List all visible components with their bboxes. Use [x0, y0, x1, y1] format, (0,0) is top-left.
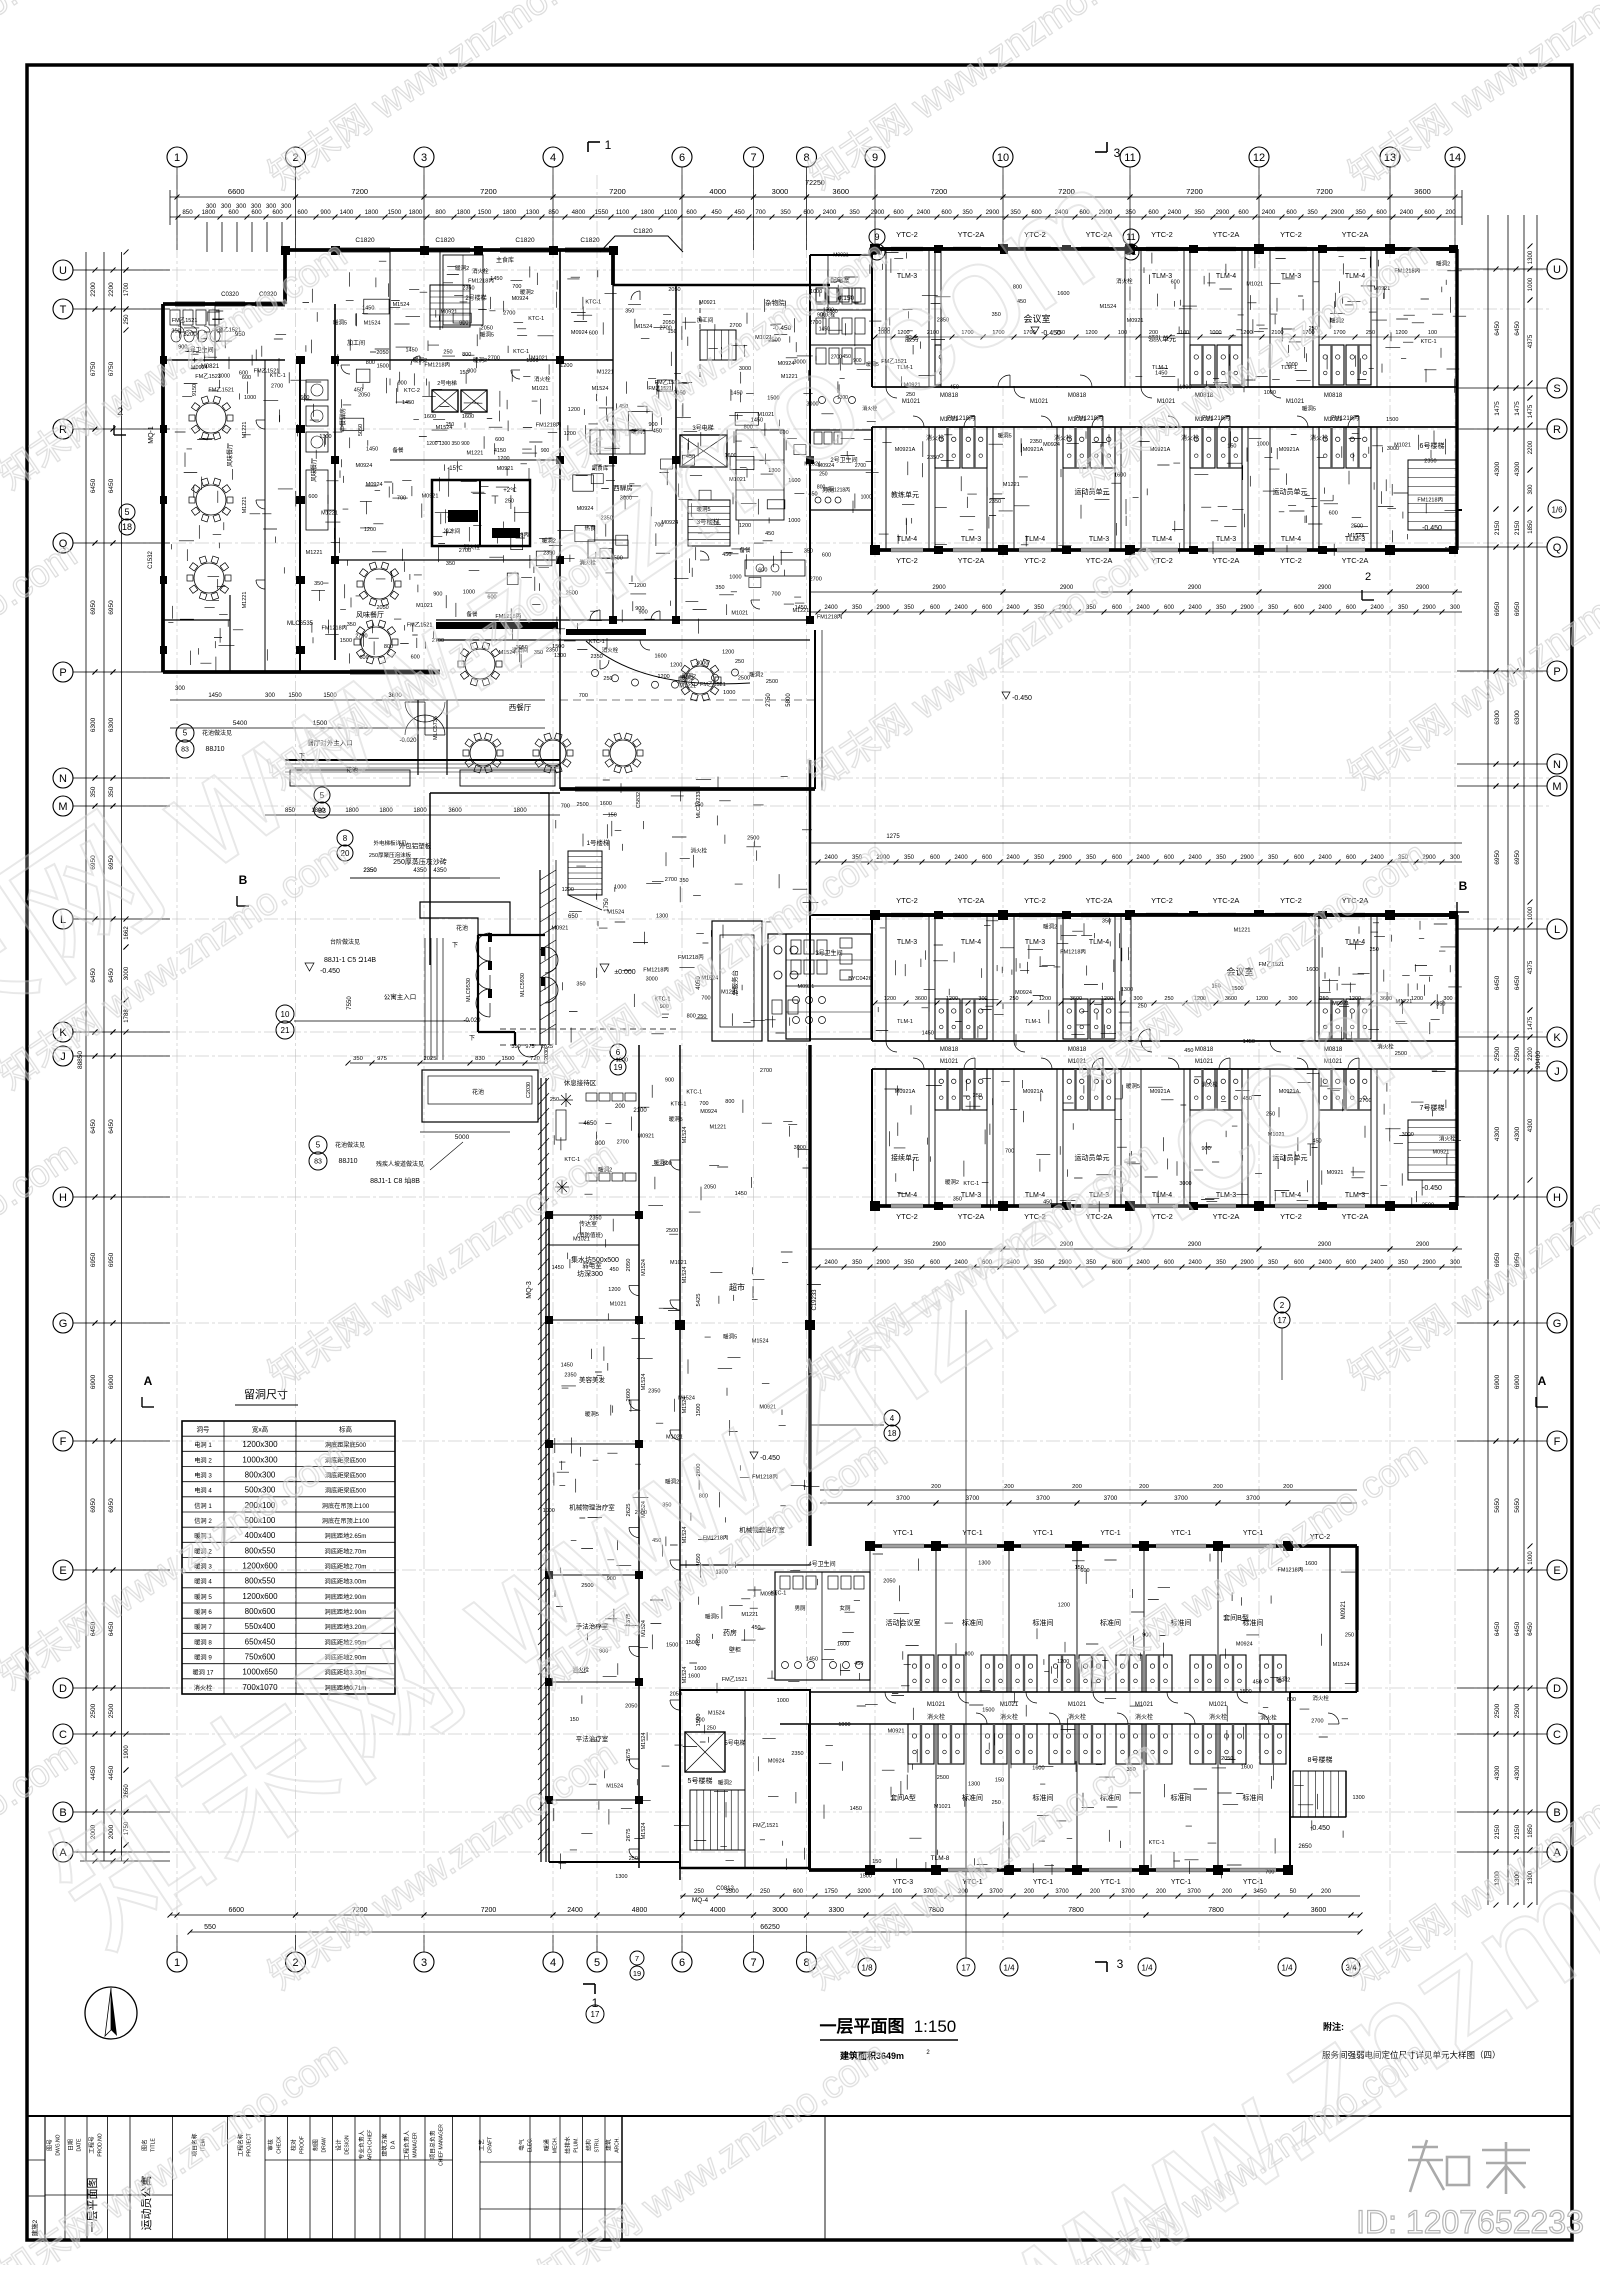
dining service corridor walls + columns [299, 360, 301, 672]
svg-text:4: 4 [550, 152, 556, 164]
svg-text:2400: 2400 [1318, 855, 1332, 861]
svg-text:1200: 1200 [1101, 996, 1113, 1002]
svg-text:450: 450 [354, 388, 363, 394]
svg-text:250厚聚压泡沫板: 250厚聚压泡沫板 [369, 851, 412, 859]
svg-text:暖洞2: 暖洞2 [654, 1158, 668, 1166]
left axis bubbles [53, 260, 73, 280]
svg-text:300: 300 [175, 686, 186, 692]
svg-text:暖洞5: 暖洞5 [585, 1410, 599, 1418]
svg-text:300: 300 [1528, 484, 1534, 495]
axis grid dash-dot lines [176, 175, 178, 1950]
svg-text:制图: 制图 [312, 2139, 320, 2151]
svg-text:花池: 花池 [472, 1088, 484, 1096]
svg-text:1000: 1000 [723, 690, 735, 696]
svg-text:600: 600 [1112, 605, 1123, 611]
svg-text:1100: 1100 [664, 209, 678, 216]
svg-text:6950: 6950 [1514, 850, 1521, 865]
svg-text:2400: 2400 [1168, 209, 1182, 216]
svg-text:2400: 2400 [823, 209, 837, 216]
revolving entry MLC5735 [405, 715, 425, 735]
svg-text:M1221: M1221 [1234, 927, 1251, 933]
svg-text:2150: 2150 [1514, 520, 1521, 535]
svg-text:7: 7 [635, 1954, 639, 1963]
svg-text:YTC-1: YTC-1 [1171, 1879, 1191, 1886]
dining north wall columns [281, 246, 290, 255]
svg-text:暖洞2: 暖洞2 [520, 288, 534, 296]
svg-text:350: 350 [625, 308, 634, 314]
wing1 meeting room (clear cell) [941, 250, 1125, 386]
svg-text:300: 300 [978, 996, 987, 1002]
svg-text:2400: 2400 [1318, 605, 1332, 611]
svg-text:2500: 2500 [747, 835, 759, 841]
flower bed strip south of dining [290, 770, 410, 786]
svg-text:坊深300: 坊深300 [577, 1269, 603, 1278]
svg-text:300: 300 [266, 203, 277, 210]
elevator no.5 [685, 1732, 725, 1772]
svg-text:2050: 2050 [670, 1692, 682, 1698]
svg-text:5: 5 [124, 507, 129, 517]
svg-text:3000: 3000 [696, 660, 708, 666]
svg-text:+2℃: +2℃ [503, 488, 517, 494]
svg-text:YTC-2: YTC-2 [1024, 896, 1046, 905]
svg-text:YTC-2: YTC-2 [1024, 556, 1046, 565]
svg-text:暖洞2: 暖洞2 [718, 1779, 732, 1787]
svg-text:U: U [59, 265, 67, 277]
svg-text:男厕: 男厕 [794, 1605, 806, 1612]
svg-text:M0818: M0818 [1324, 393, 1343, 399]
svg-text:1275: 1275 [886, 834, 900, 840]
svg-text:消火栓: 消火栓 [1068, 1713, 1086, 1721]
svg-text:FM乙1521: FM乙1521 [722, 1676, 748, 1683]
svg-text:1450: 1450 [366, 446, 378, 452]
svg-text:D.A: D.A [391, 2140, 397, 2149]
svg-text:6750: 6750 [90, 361, 97, 376]
svg-text:6450: 6450 [90, 1119, 97, 1134]
svg-text:5050: 5050 [358, 424, 364, 436]
bottom dimension lines [170, 1914, 1360, 1916]
svg-text:600: 600 [1164, 855, 1175, 861]
svg-text:350: 350 [353, 1056, 363, 1062]
svg-text:M1021: M1021 [1030, 399, 1049, 405]
svg-text:6450: 6450 [108, 1119, 115, 1134]
svg-text:1600: 1600 [654, 654, 666, 660]
svg-text:600: 600 [1346, 1260, 1357, 1266]
svg-text:标准间: 标准间 [962, 1793, 983, 1802]
svg-text:YTC-2A: YTC-2A [1342, 1212, 1369, 1221]
svg-text:7: 7 [750, 152, 756, 164]
canopy dashed [500, 1028, 680, 1030]
svg-text:2900: 2900 [1240, 605, 1254, 611]
svg-text:2500: 2500 [1514, 1046, 1521, 1061]
svg-text:2700: 2700 [760, 1068, 772, 1074]
svg-text:1200: 1200 [616, 1057, 628, 1063]
svg-text:3号卫生间: 3号卫生间 [815, 949, 842, 957]
svg-text:2900: 2900 [876, 605, 890, 611]
svg-text:FM1218丙: FM1218丙 [1417, 496, 1443, 503]
svg-text:YTC-2A: YTC-2A [1213, 896, 1240, 905]
svg-text:250: 250 [629, 1856, 638, 1862]
svg-text:M0921: M0921 [422, 494, 439, 500]
flower bed upper (stepped) [420, 902, 510, 935]
svg-text:350: 350 [576, 981, 585, 987]
svg-text:150: 150 [694, 803, 703, 809]
svg-text:1450: 1450 [1155, 371, 1167, 377]
svg-text:2350: 2350 [363, 868, 377, 874]
svg-text:10: 10 [281, 1010, 290, 1019]
svg-text:暖洞5: 暖洞5 [480, 331, 494, 339]
section mark 1 bottom [583, 1983, 595, 1985]
svg-text:1800: 1800 [413, 808, 427, 814]
service corridor verticals in dining [299, 360, 301, 672]
svg-text:2150: 2150 [1494, 1824, 1501, 1839]
svg-text:M1021: M1021 [1286, 399, 1305, 405]
lobby walls [809, 760, 812, 915]
svg-text:2700: 2700 [488, 355, 500, 361]
svg-text:3450: 3450 [1253, 1889, 1267, 1895]
svg-text:600: 600 [1148, 209, 1159, 216]
svg-text:4300: 4300 [1494, 1765, 1501, 1780]
svg-text:U: U [1553, 264, 1561, 276]
svg-text:350: 350 [1216, 1260, 1227, 1266]
right detail bubble 1/6 [1548, 500, 1566, 518]
svg-text:350: 350 [1034, 855, 1045, 861]
svg-text:800x600: 800x600 [245, 1607, 276, 1616]
svg-text:电洞 3: 电洞 3 [194, 1471, 212, 1479]
svg-text:7800: 7800 [1068, 1907, 1084, 1914]
svg-text:1500: 1500 [666, 1643, 678, 1649]
bay window C1820 trapezoid [600, 236, 683, 252]
extra door arcs kitchen [341, 365, 350, 374]
svg-text:2050: 2050 [662, 320, 674, 326]
callout 5/83 flower bed detail (two places) [176, 724, 194, 742]
svg-text:1200: 1200 [1411, 996, 1423, 1002]
svg-text:150: 150 [668, 329, 677, 335]
svg-text:C: C [1553, 1729, 1561, 1741]
svg-text:加工间: 加工间 [347, 339, 365, 347]
svg-text:M1221: M1221 [466, 450, 483, 456]
svg-text:6950: 6950 [108, 1498, 115, 1513]
svg-text:800x550: 800x550 [245, 1546, 276, 1555]
svg-text:YTC-1: YTC-1 [1033, 1530, 1053, 1537]
svg-text:专业负责人: 专业负责人 [358, 2130, 366, 2159]
svg-text:YTC-1: YTC-1 [1100, 1530, 1120, 1537]
svg-text:2900: 2900 [1240, 855, 1254, 861]
svg-text:250: 250 [1366, 330, 1375, 336]
svg-text:700: 700 [699, 1101, 708, 1107]
svg-text:3000: 3000 [1402, 1132, 1414, 1138]
svg-text:TLM-3: TLM-3 [1089, 536, 1109, 543]
svg-text:1800: 1800 [503, 209, 517, 216]
svg-text:标准间: 标准间 [1243, 1793, 1264, 1802]
svg-text:800x550: 800x550 [245, 1577, 276, 1586]
svg-text:350: 350 [804, 549, 813, 555]
stair no.1 [568, 851, 602, 895]
svg-text:6950: 6950 [1494, 601, 1501, 616]
5/83 callout upper [314, 787, 330, 803]
svg-text:19: 19 [614, 1063, 623, 1072]
svg-text:C2030: C2030 [526, 1082, 532, 1098]
svg-text:YTC-2: YTC-2 [1280, 1212, 1302, 1221]
wing3 stair block 5 bold [680, 1690, 810, 1868]
west outer wall [161, 304, 165, 672]
svg-text:2350: 2350 [1445, 547, 1457, 553]
south wall dining [163, 670, 440, 674]
svg-text:600: 600 [1286, 209, 1297, 216]
svg-text:3700: 3700 [1104, 1495, 1118, 1502]
svg-text:350: 350 [171, 328, 180, 334]
svg-text:3700: 3700 [1055, 1889, 1069, 1895]
svg-text:壁柜: 壁柜 [729, 1646, 741, 1654]
svg-text:标准间: 标准间 [1033, 1618, 1054, 1627]
svg-text:M1221: M1221 [741, 1612, 758, 1618]
svg-text:图号: 图号 [46, 2139, 54, 2151]
svg-text:M0818: M0818 [1068, 393, 1087, 399]
entrance walkway steps [424, 938, 426, 1060]
svg-text:8号楼梯: 8号楼梯 [1308, 1755, 1333, 1764]
svg-text:FM1218丙: FM1218丙 [536, 422, 562, 429]
svg-text:M0924: M0924 [366, 482, 383, 488]
svg-text:200: 200 [1445, 209, 1456, 216]
svg-text:2900: 2900 [871, 209, 885, 216]
svg-text:1450: 1450 [850, 1806, 862, 1812]
svg-text:1450: 1450 [405, 348, 417, 354]
svg-text:CHECK: CHECK [277, 2136, 283, 2154]
svg-text:下: 下 [469, 1035, 475, 1042]
svg-text:450: 450 [610, 1267, 619, 1273]
svg-text:YTC-2: YTC-2 [1280, 556, 1302, 565]
svg-text:花池: 花池 [456, 924, 468, 932]
south windows of west restaurant [575, 786, 700, 788]
svg-text:4450: 4450 [90, 1765, 97, 1780]
svg-text:2400: 2400 [954, 605, 968, 611]
svg-text:1200: 1200 [657, 674, 669, 680]
wing1 service column left [810, 254, 872, 256]
svg-text:M: M [1552, 781, 1561, 793]
svg-text:G: G [59, 1318, 68, 1330]
svg-text:2400: 2400 [917, 209, 931, 216]
svg-text:2050: 2050 [704, 1185, 716, 1191]
svg-text:YTC-2A: YTC-2A [1213, 556, 1240, 565]
svg-text:4650: 4650 [583, 1121, 597, 1127]
dashed canopy over west restaurant [560, 699, 815, 701]
svg-text:600: 600 [930, 855, 941, 861]
svg-text:2400: 2400 [1370, 605, 1384, 611]
svg-text:6450: 6450 [1494, 975, 1501, 990]
wing1 interior dim row [810, 591, 1462, 593]
svg-text:M1524: M1524 [592, 386, 609, 392]
svg-text:6450: 6450 [1494, 321, 1501, 336]
svg-text:暖洞2: 暖洞2 [1043, 922, 1057, 930]
svg-text:1450: 1450 [806, 1656, 818, 1662]
svg-text:C5832: C5832 [636, 792, 642, 808]
svg-text:600: 600 [803, 209, 814, 216]
svg-text:FM1218丙: FM1218丙 [1331, 415, 1359, 422]
svg-text:1600: 1600 [462, 414, 474, 420]
svg-text:350: 350 [852, 605, 863, 611]
svg-text:850: 850 [548, 209, 559, 216]
svg-text:1100: 1100 [616, 209, 630, 216]
svg-text:1200: 1200 [1395, 330, 1407, 336]
svg-text:6900: 6900 [108, 1374, 115, 1389]
svg-text:暖洞2: 暖洞2 [1276, 1676, 1290, 1684]
svg-text:1800: 1800 [379, 808, 393, 814]
svg-text:1500: 1500 [1386, 417, 1398, 423]
svg-text:主食库: 主食库 [496, 256, 514, 264]
svg-text:7200: 7200 [480, 187, 497, 196]
svg-text:450: 450 [1253, 1680, 1262, 1686]
svg-text:M0924: M0924 [512, 296, 529, 302]
svg-text:3600: 3600 [448, 808, 462, 814]
svg-text:975: 975 [377, 1056, 387, 1062]
svg-text:2900: 2900 [1318, 585, 1332, 591]
svg-text:FM乙1521: FM乙1521 [700, 681, 726, 688]
svg-text:3600: 3600 [1414, 187, 1431, 196]
svg-text:350: 350 [849, 209, 860, 216]
svg-text:M1021: M1021 [1068, 1702, 1087, 1708]
svg-text:1: 1 [174, 152, 180, 164]
svg-text:350: 350 [1268, 1260, 1279, 1266]
znzmo logo (drawn strokes) [1412, 2146, 1438, 2149]
detail bubble 6/19 [610, 1044, 626, 1060]
svg-text:4300: 4300 [1528, 1118, 1534, 1132]
svg-text:消火栓: 消火栓 [926, 434, 944, 442]
svg-text:6900: 6900 [1514, 1374, 1521, 1389]
svg-text:3: 3 [421, 152, 427, 164]
svg-text:1500: 1500 [377, 363, 389, 369]
svg-text:6600: 6600 [228, 187, 245, 196]
svg-text:700: 700 [561, 803, 570, 809]
svg-text:1300: 1300 [1121, 987, 1133, 993]
svg-text:消火栓: 消火栓 [194, 1684, 213, 1692]
svg-text:暖洞5: 暖洞5 [1302, 405, 1316, 413]
svg-text:M0818: M0818 [940, 1047, 959, 1053]
wing2 dim rows above [810, 842, 1462, 844]
svg-text:M1021: M1021 [532, 386, 549, 392]
svg-text:6950: 6950 [90, 600, 97, 615]
svg-text:600: 600 [686, 209, 697, 216]
svg-text:600: 600 [822, 552, 831, 558]
svg-text:宽x高: 宽x高 [252, 1425, 269, 1434]
svg-text:暖洞 8: 暖洞 8 [194, 1638, 212, 1646]
svg-text:C1820: C1820 [633, 228, 653, 235]
MLC5735 vestibule walls [417, 700, 419, 775]
svg-text:600: 600 [1287, 1697, 1296, 1703]
svg-text:2700: 2700 [617, 1140, 629, 1146]
svg-text:-0.450: -0.450 [1012, 695, 1032, 702]
svg-text:K: K [1553, 1032, 1561, 1044]
svg-text:3: 3 [1117, 1957, 1124, 1971]
svg-text:1200: 1200 [1240, 330, 1252, 336]
svg-text:2900: 2900 [932, 585, 946, 591]
svg-text:17: 17 [1278, 1316, 1287, 1325]
north walls [163, 302, 285, 306]
svg-text:暖洞 5: 暖洞 5 [194, 1593, 212, 1601]
right axis bubbles [1547, 259, 1567, 279]
svg-text:300: 300 [281, 203, 292, 210]
svg-text:200: 200 [1321, 1889, 1332, 1895]
svg-text:M1221: M1221 [242, 592, 248, 609]
svg-text:200: 200 [1024, 1889, 1035, 1895]
svg-text:2400: 2400 [1370, 1260, 1384, 1266]
svg-text:1200 1300 350 900: 1200 1300 350 900 [426, 441, 469, 447]
svg-text:M0924: M0924 [768, 1759, 785, 1765]
svg-text:2050: 2050 [883, 1578, 895, 1584]
svg-text:6: 6 [679, 1957, 685, 1969]
svg-text:7550: 7550 [347, 996, 353, 1010]
svg-text:250: 250 [694, 1889, 705, 1895]
svg-text:250: 250 [505, 499, 514, 505]
svg-text:FM乙1521: FM乙1521 [172, 317, 198, 324]
toilet no.1 block [163, 359, 285, 361]
svg-text:1850: 1850 [1528, 520, 1534, 534]
supermarket [808, 1045, 811, 1546]
svg-text:450: 450 [711, 209, 722, 216]
svg-text:1/4: 1/4 [1281, 1964, 1293, 1973]
svg-text:YTC-3: YTC-3 [893, 1879, 913, 1886]
svg-text:1450: 1450 [402, 400, 414, 406]
svg-text:2400: 2400 [824, 1260, 838, 1266]
svg-text:FM1218丙: FM1218丙 [1060, 948, 1086, 955]
svg-text:7200: 7200 [351, 187, 368, 196]
svg-text:D: D [1553, 1683, 1561, 1695]
svg-text:2400: 2400 [824, 605, 838, 611]
svg-text:200: 200 [931, 1484, 941, 1490]
svg-text:600: 600 [982, 855, 993, 861]
svg-text:C1532: C1532 [148, 551, 154, 569]
svg-text:1200x300: 1200x300 [242, 1440, 278, 1449]
svg-text:5号电梯: 5号电梯 [724, 1739, 745, 1747]
svg-text:YTC-2A: YTC-2A [1086, 896, 1113, 905]
svg-text:洞底距地2.70m: 洞底距地2.70m [325, 1547, 367, 1555]
curtain wall MQ-3 hatched [540, 1078, 542, 1862]
svg-text:洞底在吊顶上100: 洞底在吊顶上100 [322, 1502, 370, 1510]
svg-text:900: 900 [320, 209, 331, 216]
svg-text:88J1-1 C5 Զ14B: 88J1-1 C5 Զ14B [324, 956, 376, 964]
svg-text:暖洞 6: 暖洞 6 [194, 1608, 212, 1616]
svg-text:YTC-2A: YTC-2A [958, 556, 985, 565]
svg-text:4号卫生间: 4号卫生间 [808, 1560, 835, 1568]
svg-text:450: 450 [734, 209, 745, 216]
svg-text:项目总负责: 项目总负责 [429, 2130, 437, 2159]
svg-text:TLM-8: TLM-8 [931, 1855, 950, 1862]
kitchen bold partitions [334, 304, 336, 660]
svg-text:200: 200 [1004, 1484, 1014, 1490]
door arcs along corridor right wall [670, 1160, 680, 1170]
svg-text:2900: 2900 [1422, 1260, 1436, 1266]
svg-text:YTC-2A: YTC-2A [1342, 230, 1369, 239]
svg-text:-0.450: -0.450 [1310, 1825, 1330, 1832]
wing1 unit cells [885, 249, 887, 387]
svg-text:B: B [1459, 879, 1468, 893]
svg-text:美容美发: 美容美发 [579, 1375, 606, 1384]
svg-text:1500: 1500 [686, 1640, 698, 1646]
svg-text:1000: 1000 [1528, 906, 1534, 920]
svg-text:1300: 1300 [1528, 250, 1534, 264]
svg-text:3: 3 [1114, 146, 1121, 160]
svg-text:TLM-4: TLM-4 [897, 536, 917, 543]
svg-text:1450: 1450 [922, 1030, 934, 1036]
svg-text:2700: 2700 [503, 311, 515, 317]
svg-text:6450: 6450 [108, 478, 115, 493]
svg-text:350: 350 [1307, 209, 1318, 216]
svg-text:4300: 4300 [1514, 461, 1521, 476]
svg-text:6300: 6300 [1494, 710, 1501, 725]
svg-text:2050: 2050 [625, 1704, 637, 1710]
svg-text:2900: 2900 [1416, 1242, 1430, 1248]
svg-text:给排水: 给排水 [564, 2136, 572, 2154]
svg-text:A: A [144, 1374, 153, 1388]
svg-text:90400: 90400 [1535, 1051, 1542, 1069]
